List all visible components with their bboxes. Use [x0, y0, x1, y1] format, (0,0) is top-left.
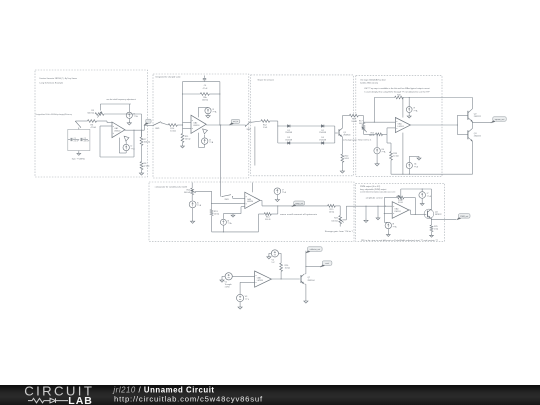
- svg-text:jrl210 / Unnamed Circuit: jrl210 / Unnamed Circuit: [112, 385, 214, 394]
- svg-text:10 kΩ: 10 kΩ: [393, 156, 399, 158]
- svg-text:some small amount of hysteresi: some small amount of hysteresis: [280, 213, 317, 216]
- svg-text:long: adjustable (PWM) output: long: adjustable (PWM) output: [360, 188, 387, 191]
- svg-text:47 nF: 47 nF: [203, 88, 209, 90]
- svg-text:LM??? op amp is available in t: LM??? op amp is available in the lab and…: [364, 87, 430, 90]
- svg-text:LM324: LM324: [114, 131, 121, 133]
- svg-text:?? A: ?? A: [131, 147, 136, 150]
- svg-text:2.2 nF: 2.2 nF: [74, 140, 80, 142]
- svg-text:emit: emit: [325, 262, 329, 265]
- svg-text:square_out: square_out: [495, 118, 505, 121]
- svg-text:1 kHz: 1 kHz: [225, 287, 230, 289]
- svg-text:56 Ω: 56 Ω: [345, 158, 350, 160]
- svg-text:Designed from 10 Hz to 100 KHz: Designed from 10 Hz to 100 KHz by changi…: [36, 113, 72, 116]
- svg-text:10 kΩ: 10 kΩ: [285, 268, 291, 270]
- svg-text:?? V: ?? V: [245, 299, 250, 301]
- svg-text:NPN22: NPN22: [435, 214, 442, 216]
- svg-text:Sync: ?? (1MHz): Sync: ?? (1MHz): [72, 158, 85, 160]
- svg-text:10 kΩ: 10 kΩ: [329, 211, 335, 213]
- svg-text:?? A: ?? A: [393, 225, 398, 228]
- svg-text:Long Schematic Example: Long Schematic Example: [40, 82, 64, 85]
- svg-text:2N2222: 2N2222: [474, 135, 482, 137]
- svg-text:(2 kΩ): (2 kΩ): [144, 166, 150, 168]
- svg-text:collector_out: collector_out: [310, 248, 321, 251]
- svg-text:500 Ω: 500 Ω: [265, 219, 271, 221]
- svg-text:Integrated for sharped value: Integrated for sharped value: [156, 75, 182, 78]
- svg-text:Strange gain: from ? M to ?: Strange gain: from ? M to ?: [325, 230, 354, 233]
- svg-text:1N4148: 1N4148: [285, 139, 292, 141]
- svg-text:?? A: ?? A: [134, 115, 139, 118]
- svg-text:47 kΩ: 47 kΩ: [91, 127, 97, 129]
- svg-text:1N4148: 1N4148: [285, 132, 292, 134]
- svg-text:?? A: ?? A: [228, 222, 233, 225]
- svg-text:?? A: ?? A: [209, 141, 214, 144]
- svg-text:10 kΩ: 10 kΩ: [170, 131, 176, 133]
- svg-text:LM324: LM324: [398, 126, 405, 128]
- svg-text:SW3: SW3: [224, 199, 228, 201]
- svg-text:220 nF: 220 nF: [84, 140, 90, 142]
- svg-text:10 kΩ: 10 kΩ: [398, 202, 404, 204]
- svg-text:Shaper for sinewave: Shaper for sinewave: [258, 79, 275, 82]
- svg-text:comp_out: comp_out: [295, 202, 303, 205]
- svg-text:LAB: LAB: [68, 395, 93, 405]
- svg-text:100 kΩ: 100 kΩ: [331, 220, 338, 222]
- svg-text:10 kΩ: 10 kΩ: [214, 214, 220, 216]
- svg-text:?? A: ?? A: [197, 204, 202, 207]
- svg-text:1N4148: 1N4148: [319, 139, 326, 141]
- svg-text:500 kΩ: 500 kΩ: [87, 112, 94, 114]
- svg-text:PWM output (0 to 5V): PWM output (0 to 5V): [360, 185, 380, 188]
- svg-text:?? A: ?? A: [413, 109, 418, 112]
- svg-text:SW1: SW1: [155, 128, 160, 130]
- svg-text:handles 2/8bit and amp: handles 2/8bit and amp: [360, 82, 379, 85]
- svg-text:http://circuitlab.com/c5w48cyv: http://circuitlab.com/c5w48cyv86suf: [114, 394, 263, 403]
- svg-text:500 kΩ: 500 kΩ: [184, 192, 191, 194]
- svg-text:1 kΩ: 1 kΩ: [434, 228, 439, 230]
- svg-text:?? A: ?? A: [212, 111, 217, 114]
- svg-text:5 V: 5 V: [272, 262, 276, 264]
- svg-text:2N2222: 2N2222: [474, 116, 482, 118]
- svg-text:(change gain: Sine 0.8 to 1: (change gain: Sine 0.8 to 1: [343, 138, 372, 141]
- svg-text:10 kΩ: 10 kΩ: [185, 138, 191, 140]
- svg-text:comparator for variable pulse: comparator for variable pulse width: [155, 185, 188, 188]
- svg-text:PWM_out: PWM_out: [460, 215, 468, 218]
- svg-text:100 kΩ: 100 kΩ: [144, 141, 151, 143]
- svg-text:I count deeply thru using BJTs: I count deeply thru using BJTs through ?…: [364, 90, 430, 93]
- svg-text:LM324: LM324: [193, 125, 200, 127]
- svg-text:PID in for: sine to and differ: PID in for: sine to and different as Pul…: [361, 239, 439, 242]
- svg-text:Function Generator XR2206 (?): Function Generator XR2206 (?) - By Tony …: [40, 77, 78, 80]
- svg-text:amplitude control: amplitude control: [366, 197, 383, 200]
- svg-text:Out stage 200mA (BJTs), ideal: Out stage 200mA (BJTs), ideal: [360, 78, 386, 81]
- svg-text:10 kΩ: 10 kΩ: [351, 121, 357, 123]
- svg-text:use for initial frequency adju: use for initial frequency adjustment: [106, 98, 136, 101]
- svg-text:100 kΩ: 100 kΩ: [202, 100, 209, 102]
- svg-text:LM324: LM324: [247, 201, 254, 203]
- svg-text:use emitter follower for low i: use emitter follower for low impedance o…: [360, 191, 395, 194]
- svg-text:?? A: ?? A: [282, 191, 287, 194]
- svg-text:1 kΩ: 1 kΩ: [263, 127, 268, 129]
- svg-text:LM324: LM324: [257, 280, 264, 282]
- svg-text:?? A: ?? A: [381, 151, 386, 154]
- svg-text:?? A: ?? A: [427, 195, 432, 198]
- svg-text:?? A: ?? A: [414, 165, 419, 168]
- svg-text:LM324: LM324: [394, 211, 401, 213]
- svg-text:2N3904: 2N3904: [343, 135, 351, 137]
- svg-text:out_tri: out_tri: [233, 120, 239, 123]
- svg-text:100 Ω: 100 Ω: [369, 135, 375, 137]
- svg-text:500 kΩ: 500 kΩ: [359, 123, 366, 125]
- svg-text:2N3904: 2N3904: [308, 280, 316, 282]
- svg-text:1N4148: 1N4148: [319, 132, 326, 134]
